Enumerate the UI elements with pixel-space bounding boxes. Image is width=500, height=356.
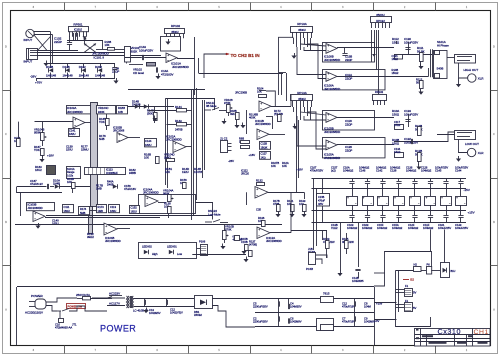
svg-text:+76V: +76V (35, 81, 42, 85)
svg-text:Cx310: Cx310 (438, 327, 462, 336)
svg-text:10K: 10K (105, 43, 110, 47)
svg-text:470uF/16V: 470uF/16V (342, 320, 355, 324)
svg-text:D12B: D12B (63, 65, 70, 69)
svg-text:0B Mute: 0B Mute (206, 104, 217, 108)
svg-text:+18V: +18V (249, 153, 256, 157)
svg-text:18Ω2: 18Ω2 (392, 57, 399, 61)
svg-text:−: − (105, 231, 107, 235)
svg-text:JRC2068DD: JRC2068DD (28, 206, 43, 210)
svg-text:7815: 7815 (323, 292, 330, 296)
svg-text:5V: 5V (413, 291, 417, 295)
svg-text:JRC2068DD: JRC2068DD (67, 110, 83, 114)
svg-text:−: − (258, 135, 260, 139)
svg-text:+: + (327, 44, 329, 48)
svg-text:JRC2068DD: JRC2068DD (324, 156, 340, 160)
svg-text:104M: 104M (364, 305, 371, 309)
svg-text:1N4148: 1N4148 (95, 73, 106, 77)
svg-text:18Ω2: 18Ω2 (394, 150, 401, 154)
svg-text:(50K): (50K) (147, 112, 154, 116)
svg-text:+: + (260, 102, 262, 106)
svg-text:/25V: /25V (318, 203, 323, 206)
svg-text:F1: F1 (405, 284, 409, 288)
svg-text:1MB: 1MB (96, 187, 102, 191)
svg-text:−: − (256, 194, 258, 198)
svg-text:47uF/16V: 47uF/16V (124, 187, 136, 191)
svg-text:2200uF/35V: 2200uF/35V (253, 305, 268, 309)
svg-text:15MU: 15MU (81, 148, 88, 152)
svg-text:JRC20: JRC20 (241, 172, 249, 176)
svg-text:104MΩ2: 104MΩ2 (423, 226, 434, 230)
svg-text:IC113: IC113 (106, 168, 113, 172)
svg-text:1BΩK: 1BΩK (261, 145, 268, 149)
svg-text:16U2: 16U2 (35, 168, 42, 172)
svg-text:H2: H2 (414, 263, 418, 267)
svg-text:C15B: C15B (241, 240, 248, 244)
svg-text:RP501: RP501 (73, 22, 83, 26)
svg-text:22ΩP: 22ΩP (112, 70, 119, 74)
svg-text:−: − (34, 217, 36, 221)
svg-text:+: + (258, 228, 260, 232)
svg-text:JRC206B: JRC206B (235, 91, 247, 95)
svg-text:NdB: NdB (99, 137, 105, 141)
svg-text:C113: C113 (110, 205, 117, 209)
svg-text:IC101J: IC101J (74, 27, 83, 31)
svg-text:C138: C138 (390, 169, 397, 173)
svg-text:J1 C2: J1 C2 (220, 137, 228, 141)
svg-text:+18V: +18V (47, 154, 54, 158)
svg-text:C35: C35 (256, 208, 261, 212)
svg-text:−: − (327, 49, 329, 53)
svg-text:5MB: 5MB (80, 211, 86, 215)
svg-text:+: + (256, 188, 258, 192)
svg-text:JRC2068DD: JRC2068DD (172, 65, 190, 69)
svg-text:+: + (174, 142, 176, 146)
svg-text:165U: 165U (52, 222, 59, 226)
svg-text:182U: 182U (145, 143, 151, 147)
svg-text:+: + (327, 113, 329, 117)
svg-text:+18V: +18V (296, 168, 303, 172)
svg-text:472M4935-AA: 472M4935-AA (55, 326, 72, 330)
svg-text:D10B: D10B (46, 65, 53, 69)
svg-text:R173: R173 (98, 205, 105, 209)
svg-text:C144: C144 (455, 169, 462, 173)
svg-text:+: + (327, 72, 329, 76)
svg-text:LED002: LED002 (142, 245, 152, 249)
svg-text:INPUT: INPUT (24, 38, 33, 42)
svg-text:JRC2068DD: JRC2068DD (324, 87, 340, 91)
svg-text:POWER: POWER (100, 324, 136, 334)
svg-text:18Ω2: 18Ω2 (394, 123, 401, 127)
svg-text:8500U: 8500U (171, 31, 178, 34)
svg-text:104MΩ2: 104MΩ2 (343, 169, 354, 173)
svg-text:100uF/25V: 100uF/25V (404, 40, 418, 44)
svg-text:XLR: XLR (478, 151, 484, 155)
svg-text:P6: P6 (427, 263, 431, 267)
svg-text:C152: C152 (131, 206, 138, 210)
svg-text:RP102: RP102 (171, 24, 181, 28)
svg-text:−: − (118, 138, 120, 142)
svg-text:C145: C145 (435, 169, 442, 173)
svg-text:104MΩ2: 104MΩ2 (377, 226, 388, 230)
svg-text:JRC2068DD: JRC2068DD (324, 130, 340, 134)
svg-text:150Ω: 150Ω (392, 112, 400, 116)
svg-text:1N4148: 1N4148 (46, 73, 57, 77)
svg-text:CH1: CH1 (474, 329, 489, 336)
svg-text:AC223V: AC223V (109, 292, 120, 296)
svg-text:−: − (327, 118, 329, 122)
svg-text:C141: C141 (69, 128, 76, 132)
svg-text:+: + (167, 53, 169, 57)
svg-text:22ΩP: 22ΩP (345, 148, 352, 152)
svg-text:950K: 950K (34, 131, 41, 135)
svg-text:D202: D202 (95, 65, 102, 69)
svg-text:39Ω2: 39Ω2 (87, 235, 94, 239)
svg-text:C144: C144 (145, 139, 152, 143)
svg-text:JRC2068DD: JRC2068DD (105, 239, 121, 243)
svg-text:8500U: 8500U (298, 29, 306, 32)
svg-text:+: + (327, 141, 329, 145)
svg-text:132U: 132U (182, 170, 189, 174)
svg-text:1N4148: 1N4148 (79, 73, 90, 77)
svg-text:+: + (74, 118, 76, 122)
svg-text:104MΩ2: 104MΩ2 (392, 226, 403, 230)
svg-text:C146: C146 (359, 169, 366, 173)
svg-text:Low: Low (177, 252, 182, 256)
svg-text:AC220(110)V: AC220(110)V (25, 311, 43, 315)
svg-text:470uF/16V: 470uF/16V (342, 305, 355, 309)
svg-text:100uF/25V: 100uF/25V (455, 226, 468, 230)
svg-text:1042M9V: 1042M9V (290, 320, 302, 324)
svg-text:10K: 10K (271, 164, 276, 168)
svg-text:CD level: CD level (133, 71, 144, 75)
svg-text:182U: 182U (69, 132, 75, 136)
svg-text:HIGH OUT: HIGH OUT (464, 68, 479, 72)
svg-text:Hi Phase: Hi Phase (437, 43, 449, 47)
svg-text:1042(Y5)V: 1042(Y5)V (170, 311, 183, 315)
svg-text:10K: 10K (165, 170, 170, 174)
svg-text:+: + (34, 212, 36, 216)
svg-text:2200uF/35V: 2200uF/35V (253, 320, 268, 324)
svg-text:1042M9V: 1042M9V (364, 320, 376, 324)
svg-text:−: − (146, 202, 148, 206)
svg-text:104M4B5: 104M4B5 (352, 279, 364, 283)
svg-text:IC103B: IC103B (28, 202, 37, 206)
svg-text:10B: 10B (118, 110, 123, 114)
svg-text:+: + (258, 130, 260, 134)
svg-text:1042M5V: 1042M5V (149, 311, 161, 315)
svg-text:LOW OUT: LOW OUT (465, 142, 479, 146)
svg-text:TOK: TOK (34, 148, 40, 152)
svg-text:JRC2068: JRC2068 (113, 129, 125, 133)
svg-text:104MΩ2: 104MΩ2 (421, 169, 432, 173)
svg-text:104MΩ2: 104MΩ2 (347, 226, 358, 230)
svg-text:5V: 5V (413, 306, 417, 310)
svg-text:1BΩ2: 1BΩ2 (392, 71, 399, 75)
svg-text:22ΩP: 22ΩP (345, 58, 352, 62)
svg-text:IC2068HF: IC2068HF (106, 171, 118, 175)
svg-text:−: − (258, 234, 260, 238)
svg-text:INPUT: INPUT (24, 60, 33, 64)
svg-text:+: + (105, 224, 107, 228)
svg-text:C12B: C12B (261, 142, 268, 146)
svg-text:1KΩ: 1KΩ (261, 155, 266, 159)
svg-text:W04M: W04M (194, 313, 203, 317)
svg-text:100uF/25V: 100uF/25V (404, 112, 418, 116)
svg-text:TOK: TOK (99, 120, 105, 124)
svg-text:104MΩ2: 104MΩ2 (408, 226, 419, 230)
svg-text:1MB: 1MB (98, 209, 104, 213)
svg-text:(x2): (x2) (331, 169, 336, 173)
svg-text:49K: 49K (230, 112, 235, 116)
svg-text:Low Mute: Low Mute (208, 212, 221, 216)
svg-text:8500U: 8500U (298, 98, 306, 101)
svg-text:470uF/25V: 470uF/25V (310, 169, 323, 173)
svg-text:802K: 802K (131, 49, 138, 53)
svg-text:104M35V: 104M35V (290, 305, 302, 309)
svg-text:94BB: 94BB (129, 171, 136, 175)
svg-text:7Ω12: 7Ω12 (331, 226, 338, 230)
svg-text:−: − (327, 146, 329, 150)
svg-text:G2: G2 (410, 278, 414, 282)
svg-text:22ΩP: 22ΩP (54, 40, 62, 44)
svg-text:POWER: POWER (31, 294, 43, 298)
svg-text:1N4148: 1N4148 (63, 73, 74, 77)
svg-text:−: − (260, 107, 262, 111)
svg-text:P106: P106 (199, 240, 206, 244)
svg-text:XLR: XLR (478, 77, 484, 81)
svg-text:D102: D102 (79, 65, 86, 69)
svg-text:−: − (74, 124, 76, 128)
svg-text:LED001: LED001 (167, 245, 177, 249)
svg-text:JT1: JT1 (72, 323, 77, 327)
svg-text:150U: 150U (66, 148, 73, 152)
svg-text:-15V: -15V (464, 188, 470, 192)
svg-text:150Ω: 150Ω (392, 40, 400, 44)
svg-text:JRC2068DD: JRC2068DD (266, 239, 282, 243)
svg-text:10K: 10K (282, 164, 287, 168)
svg-text:PC4B: PC4B (306, 267, 313, 271)
svg-text:104MΩ2: 104MΩ2 (362, 226, 373, 230)
svg-text:RP132: RP132 (375, 90, 384, 94)
svg-text:183U: 183U (110, 209, 116, 213)
svg-text:22ΩP: 22ΩP (345, 76, 352, 80)
svg-text:JRC2068DD: JRC2068DD (255, 122, 271, 126)
svg-text:47uF/6.3V: 47uF/6.3V (30, 182, 43, 186)
svg-text:104MΩ2: 104MΩ2 (406, 169, 417, 173)
svg-text:B1U: B1U (451, 270, 456, 273)
svg-text:10K: 10K (144, 156, 149, 160)
svg-text:RP132: RP132 (376, 19, 385, 23)
svg-text:-26V: -26V (30, 75, 36, 79)
svg-text:183U: 183U (64, 209, 70, 213)
svg-text:−: − (167, 58, 169, 62)
svg-text:(470B): (470B) (249, 243, 257, 247)
svg-text:−: − (327, 77, 329, 81)
svg-text:R174: R174 (80, 207, 87, 211)
svg-text:D40B: D40B (107, 183, 114, 187)
svg-text:+: + (118, 133, 120, 137)
svg-text:AC117V: AC117V (109, 302, 120, 306)
svg-text:R1BB: R1BB (118, 106, 125, 110)
svg-text:IC101 9: IC101 9 (94, 56, 105, 60)
svg-text:22ΩP: 22ΩP (345, 122, 352, 126)
svg-text:JRC2068DD: JRC2068DD (324, 58, 340, 62)
svg-text:C111: C111 (64, 205, 70, 209)
svg-text:High: High (152, 252, 158, 256)
svg-text:1347B: 1347B (194, 170, 202, 174)
svg-text:C142: C142 (376, 169, 383, 173)
svg-text:TO CH2 B1 IN: TO CH2 B1 IN (231, 53, 260, 58)
svg-text:+: + (146, 196, 148, 200)
svg-text:940K: 940K (98, 110, 105, 114)
svg-text:C127: C127 (261, 152, 268, 156)
svg-text:472/100V: 472/100V (161, 72, 173, 76)
svg-text:-26V: -26V (228, 159, 234, 163)
svg-text:2470B: 2470B (175, 128, 183, 132)
svg-text:S40B: S40B (437, 67, 444, 71)
svg-text:182U: 182U (131, 210, 137, 214)
svg-text:+15V: +15V (468, 211, 475, 215)
svg-text:100uF/25V: 100uF/25V (139, 48, 153, 52)
svg-text:RP10A: RP10A (297, 22, 307, 26)
